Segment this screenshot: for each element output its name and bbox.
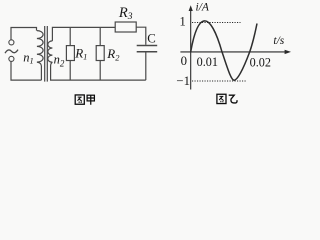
transformer primary coil n1	[37, 31, 43, 81]
dashed -1 line	[192, 80, 247, 82]
resistor R1	[66, 46, 74, 61]
svg-text:C: C	[147, 32, 156, 46]
graph: y axis	[190, 9, 192, 90]
svg-text:0: 0	[181, 54, 187, 68]
wire R1 branch bottom	[69, 61, 71, 81]
wire secondary bottom rail	[51, 62, 146, 80]
current sine curve	[191, 21, 257, 80]
caption 图乙 char 乙	[229, 95, 237, 103]
caption 图甲 char 甲	[87, 95, 94, 105]
capacitor C top plate	[137, 45, 158, 47]
wire primary top	[11, 28, 37, 40]
wire R2 branch top	[99, 27, 101, 45]
svg-text:t/s: t/s	[273, 35, 284, 47]
svg-text:−1: −1	[176, 74, 190, 88]
wire R1 branch top	[69, 27, 71, 45]
AC source terminal bottom	[9, 56, 14, 61]
svg-text:1: 1	[180, 15, 186, 29]
wire R2 branch bottom	[99, 61, 101, 81]
svg-text:0.02: 0.02	[250, 55, 271, 69]
AC source tilde	[5, 50, 18, 54]
svg-text:i/A: i/A	[196, 2, 210, 14]
wire R3 to capacitor	[136, 27, 146, 45]
y axis arrowhead	[189, 5, 193, 11]
resistor R3	[115, 22, 136, 32]
svg-text:0.01: 0.01	[197, 55, 218, 69]
capacitor C bottom plate	[137, 51, 158, 53]
caption 图乙 char 图	[217, 94, 226, 103]
resistor R2	[96, 46, 104, 61]
AC source terminal top	[9, 40, 14, 45]
caption 图甲 char 图	[75, 95, 84, 104]
t axis	[180, 51, 287, 53]
transformer core line 1	[44, 26, 46, 82]
t axis arrowhead	[285, 50, 291, 54]
dashed +1 line	[192, 22, 241, 24]
transformer core line 2	[46, 26, 48, 82]
wire capacitor bottom	[145, 52, 147, 80]
wire secondary top rail	[52, 27, 115, 41]
transformer secondary coil n2	[48, 41, 53, 62]
wire primary left-bottom	[11, 62, 41, 81]
